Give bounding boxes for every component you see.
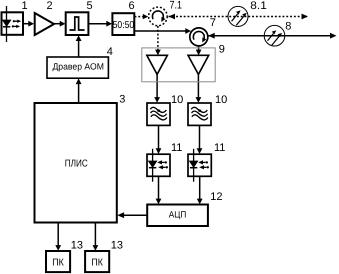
svg-text:АЦП: АЦП	[169, 209, 187, 219]
svg-text:10: 10	[215, 94, 227, 106]
svg-text:5: 5	[87, 0, 93, 12]
svg-text:9: 9	[219, 43, 225, 55]
svg-text:ПЛИС: ПЛИС	[65, 158, 88, 169]
svg-text:10: 10	[171, 94, 183, 106]
svg-text:8.1: 8.1	[250, 0, 266, 12]
svg-text:6: 6	[129, 0, 135, 12]
svg-text:2: 2	[47, 0, 53, 12]
svg-text:ПК: ПК	[52, 257, 64, 268]
svg-text:13: 13	[71, 239, 83, 251]
svg-text:13: 13	[111, 239, 123, 251]
svg-text:Дравер АОМ: Дравер АОМ	[52, 62, 104, 72]
svg-text:50:50: 50:50	[113, 20, 135, 31]
svg-text:7.1: 7.1	[170, 0, 183, 12]
svg-text:11: 11	[171, 142, 182, 154]
svg-text:11: 11	[214, 142, 225, 154]
svg-text:4: 4	[107, 46, 113, 58]
svg-text:3: 3	[119, 94, 125, 106]
svg-text:7: 7	[210, 17, 216, 29]
svg-text:1: 1	[22, 0, 28, 12]
svg-text:12: 12	[210, 191, 222, 203]
svg-text:8: 8	[285, 21, 291, 33]
svg-text:ПК: ПК	[91, 257, 103, 268]
